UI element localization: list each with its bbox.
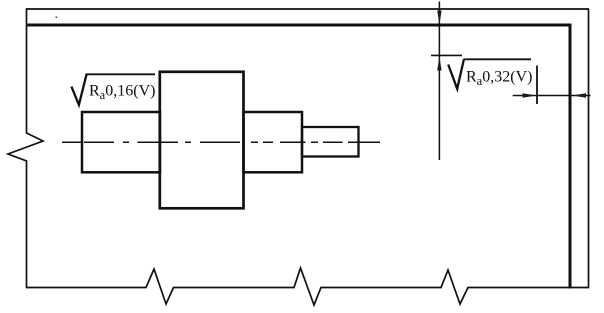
- shaft section 1 (left journal): [82, 112, 160, 172]
- shaft centerline (dash-dot axis): [62, 141, 380, 143]
- drawing frame right (thick line): [569, 24, 572, 289]
- shaft section 4 (small end journal): [302, 127, 359, 157]
- sheet edge right (thin line): [588, 9, 590, 287]
- surface finish symbol Ra0,32(V) in sheet corner: [448, 59, 537, 104]
- sheet edge left (thin line with break zigzag): [8, 8, 43, 287]
- svg-text:Ra0,32(V): Ra0,32(V): [466, 69, 532, 89]
- surface finish symbol Ra0,16(V): [71, 74, 155, 105]
- drawing frame top (thick line): [27, 24, 571, 27]
- sheet edge top (thin line): [26, 8, 589, 10]
- svg-text:Ra0,16(V): Ra0,16(V): [89, 83, 155, 103]
- sheet edge bottom (thin line with three break zigzags): [26, 268, 590, 305]
- shaft section 2 (large flange): [160, 72, 244, 209]
- horizontal dimension (distance of symbol from right frame): [513, 93, 591, 97]
- vertical dimension (distance of symbol from top frame): [431, 2, 462, 161]
- stray ink speck on sheet: [56, 17, 58, 18]
- shaft section 3 (right journal): [244, 112, 303, 172]
